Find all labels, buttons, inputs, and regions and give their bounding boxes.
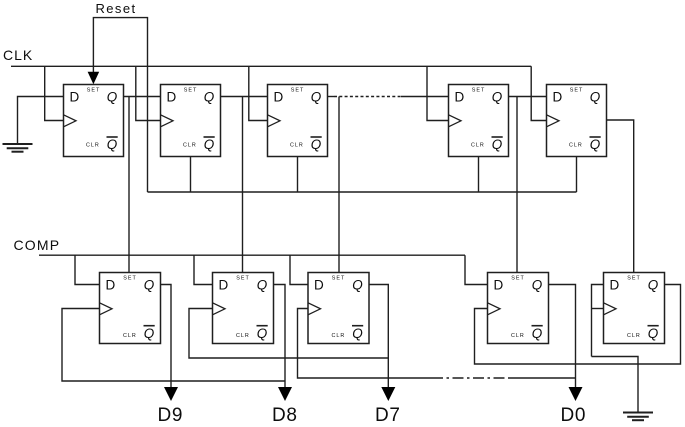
svg-text:D: D [455,90,465,105]
svg-text:CLR: CLR [332,333,346,339]
wire U6 Q output to D9 [161,285,172,389]
wire COMP to U8 D [290,255,308,284]
ground left [3,144,33,152]
svg-text:Q: Q [144,326,155,341]
wire CLK rail [11,65,531,67]
wire COMP to U6 D [75,255,100,284]
svg-text:Q: Q [590,137,601,152]
svg-text:Q: Q [648,278,659,293]
arrowhead D0 [569,387,583,401]
flip-flop U7 (bit D8) [213,273,274,344]
ground right [623,413,653,421]
wire U1 Q down to U6 SET [128,97,130,273]
svg-text:SET: SET [511,276,524,282]
arrowhead Reset into U1 SET [88,72,100,84]
svg-text:D: D [70,90,80,105]
arrowhead D7 [381,387,395,401]
svg-text:D: D [610,278,620,293]
svg-text:Q: Q [311,137,322,152]
svg-text:CLR: CLR [627,333,641,339]
wire U7 clock from U8 Q [189,309,388,359]
wire U4 Q to U5 D [509,96,547,98]
wire U8 clock from U9 Q solid end [508,377,576,379]
svg-text:D: D [106,278,116,293]
svg-text:D: D [219,278,229,293]
flip-flop U9 (bit D0) [488,273,549,344]
svg-text:Q: Q [352,326,363,341]
wire U3 Q down to U8 SET [338,97,340,273]
svg-text:Q: Q [492,90,503,105]
wire U9 clock from U10 Q [475,285,681,365]
svg-text:CLK: CLK [3,47,33,63]
flip-flop U1 (top MSB) [64,85,124,157]
svg-text:CLR: CLR [290,143,304,149]
svg-text:D8: D8 [272,405,298,426]
wire U1 clock drop [45,66,64,120]
svg-text:SET: SET [291,88,304,94]
wire U5 Q down to U10 SET [607,120,634,273]
svg-text:Reset: Reset [96,1,137,16]
wire U8 clock dash-dot continuation [432,377,508,379]
flip-flop U8 (bit D7) [308,273,369,344]
svg-text:D: D [553,90,563,105]
wire U4 D solid lead [401,96,449,98]
svg-text:Q: Q [352,278,363,293]
svg-text:D7: D7 [375,405,401,426]
wire U8 clock loop solid part [298,309,433,379]
svg-text:COMP: COMP [14,237,61,253]
svg-text:CLR: CLR [569,143,583,149]
svg-text:D: D [494,278,504,293]
wire U4 Q down to U9 SET [516,97,518,273]
wire U2 CLR drop [190,157,192,193]
wire COMP jog to U9 D [465,255,488,284]
wire U4 CLR drop [478,157,480,193]
wire U5 clock drop [531,66,546,120]
wire U3 Q dashed continuation [334,96,401,98]
wire U7 Q output to D8 [274,285,286,389]
svg-text:Q: Q [107,90,118,105]
svg-text:SET: SET [123,276,136,282]
svg-text:Q: Q [532,278,543,293]
svg-text:SET: SET [570,88,583,94]
svg-text:Q: Q [204,90,215,105]
svg-text:D9: D9 [158,405,184,426]
flip-flop U5 (top last) [547,85,607,157]
wire U6 clock from U7 Q [62,309,285,382]
svg-text:SET: SET [87,88,100,94]
wire U8 Q output to D7 [369,285,388,389]
svg-text:CLR: CLR [511,333,525,339]
wire CLR rail [148,191,577,193]
svg-text:SET: SET [332,276,345,282]
svg-text:Q: Q [532,326,543,341]
wire U5 CLR drop [576,157,578,193]
arrowhead D8 [278,387,292,401]
wire U10 clock tie [592,308,604,310]
wire U3 CLR drop [297,157,299,193]
wire U9 Q output to D0 [549,285,576,389]
flip-flop U2 [161,85,221,157]
wire U3 Q stub [328,96,335,98]
svg-text:CLR: CLR [86,143,100,149]
wire COMP rail [39,254,465,256]
wire U10 ground run [592,357,639,413]
svg-text:Q: Q [204,137,215,152]
wire U3 clock drop [249,66,268,120]
svg-text:Q: Q [311,90,322,105]
wire U4 clock drop [427,66,449,120]
svg-text:Q: Q [492,137,503,152]
svg-text:SET: SET [184,88,197,94]
flip-flop U3 [268,85,328,157]
svg-text:Q: Q [257,278,268,293]
svg-text:D: D [167,90,177,105]
wire U2 Q down to U7 SET [242,97,244,273]
svg-text:Q: Q [107,137,118,152]
wire U1 D input to ground [18,97,64,145]
svg-text:SET: SET [472,88,485,94]
wire Reset run down and over [93,18,147,192]
svg-text:CLR: CLR [183,143,197,149]
svg-text:SET: SET [236,276,249,282]
svg-text:CLR: CLR [471,143,485,149]
flip-flop U6 (bit D9) [100,273,161,344]
svg-text:Q: Q [144,278,155,293]
wire COMP to U7 D [194,255,213,284]
svg-text:D0: D0 [561,405,587,426]
wire U2 Q to U3 D [221,96,268,98]
svg-text:D: D [314,278,324,293]
svg-text:D: D [274,90,284,105]
arrowhead D9 [164,387,178,401]
flip-flop U10 (terminator) [604,273,665,344]
svg-text:CLR: CLR [123,333,137,339]
svg-text:CLR: CLR [236,333,250,339]
svg-text:SET: SET [627,276,640,282]
wire U10 D tie [592,285,604,357]
svg-text:Q: Q [257,326,268,341]
svg-text:Q: Q [648,326,659,341]
svg-text:Q: Q [590,90,601,105]
wire U1 Q to U2 D [124,96,161,98]
flip-flop U4 [449,85,509,157]
wire U2 clock drop [136,66,161,120]
